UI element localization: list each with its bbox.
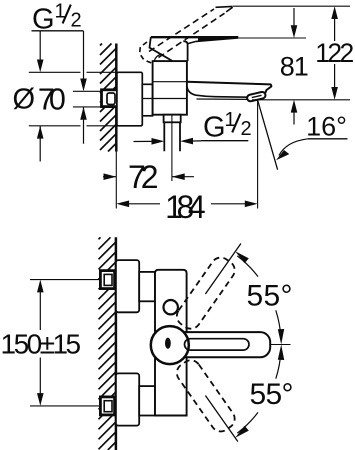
cartridge circle (151, 326, 189, 364)
upper dashed lever 55deg (173, 254, 238, 333)
spout underside inner line (197, 98, 248, 100)
lever tip extension (270, 344, 290, 346)
fraction slash middle (232, 114, 240, 133)
G1/2 label underline (middle) (201, 140, 248, 142)
spout underside (187, 87, 248, 98)
extension escutcheon top (29, 71, 117, 73)
lever solid plan (165, 332, 270, 357)
dim 72 arrows (103, 176, 194, 178)
bottom outlet collar (164, 115, 181, 123)
wall hatching top (100, 44, 116, 152)
dim 16deg leader arc (279, 139, 308, 156)
lower wall fitting square (100, 397, 114, 415)
dim 150 extension bottom (30, 405, 100, 407)
aerator inner line (252, 95, 262, 97)
dim 150 extension top (30, 279, 100, 281)
16 deg slant line (258, 100, 278, 170)
wall hatching bottom (99, 237, 116, 450)
svg-text:2: 2 (71, 10, 82, 32)
lower 55 arc (237, 350, 281, 433)
svg-text:70: 70 (38, 82, 66, 116)
wall surface line bottom (115, 237, 118, 450)
svg-text:55°: 55° (247, 280, 293, 313)
dim 122 line (334, 18, 336, 89)
dim G1/2 top arrows (83, 31, 85, 144)
svg-text:G: G (203, 112, 226, 144)
extension spout tip down (257, 100, 259, 209)
lower dashed lever 55deg (173, 356, 238, 435)
diverter small circle (164, 300, 178, 314)
dim 81 arrows (293, 8, 295, 125)
upper fitting inner (104, 274, 112, 285)
upper 55 arc (237, 256, 281, 339)
16deg label underline (308, 138, 348, 140)
G1/2 middle leader arrow (134, 140, 202, 143)
upper arc arrowheads (235, 251, 284, 344)
aerator (246, 91, 266, 102)
wall fitting inner (107, 93, 115, 105)
reference line spout outlet (252, 99, 350, 101)
cartridge dome arc (154, 54, 162, 61)
svg-text:1: 1 (225, 109, 236, 131)
handle hub (150, 37, 188, 61)
bottom outlet pipe (164, 122, 180, 151)
svg-text:1: 1 (55, 1, 66, 23)
upper escutcheon (116, 260, 139, 312)
lever (rest position, filled) (151, 36, 238, 38)
union nut side view (142, 84, 152, 116)
extension escutcheon bottom (29, 125, 117, 127)
extension line lever top (238, 37, 306, 39)
raised lever dashed (149, 9, 225, 58)
upper union nut (139, 272, 155, 301)
lever inner stadium (185, 339, 250, 350)
svg-text:81: 81 (280, 51, 308, 81)
svg-text:184: 184 (165, 189, 206, 225)
body side view (153, 61, 187, 115)
G1/2 label underline (top-left) (32, 30, 84, 32)
svg-text:16°: 16° (306, 112, 347, 142)
wall fitting square G1/2 (102, 90, 118, 107)
lower fitting inner (104, 401, 112, 412)
lower escutcheon (116, 373, 139, 425)
dim O70 arrows (39, 31, 41, 162)
pipe centerline / 72 extension (171, 115, 173, 181)
extension fitting bottom (73, 106, 101, 108)
svg-text:G: G (32, 3, 55, 35)
escutcheon side view (117, 72, 142, 126)
dim 150 line (39, 291, 41, 395)
svg-text:2: 2 (241, 118, 252, 140)
dim 184 line (128, 203, 246, 205)
fraction slash top-left (63, 5, 71, 24)
svg-text:Ø: Ø (13, 83, 36, 115)
spout top edge (187, 82, 271, 93)
upper wall fitting square (100, 271, 114, 289)
wall surface line top (115, 44, 118, 152)
body seam lines (142, 82, 187, 99)
svg-text:122: 122 (315, 38, 354, 68)
svg-text:150±15: 150±15 (1, 329, 82, 360)
lower radial extension 55deg (205, 396, 237, 442)
upper radial extension 55deg (205, 244, 241, 295)
lower union nut (139, 386, 155, 415)
extension line raised lever top (233, 5, 350, 7)
extension fitting top (73, 90, 101, 92)
pivot dot (165, 338, 171, 349)
raised lever back-end dashed (140, 42, 152, 63)
svg-text:55°: 55° (250, 378, 294, 411)
lower arc arrowheads (235, 345, 284, 438)
extension wall surface down (115, 152, 117, 209)
svg-text:72: 72 (128, 159, 159, 195)
body plan view (155, 270, 187, 416)
